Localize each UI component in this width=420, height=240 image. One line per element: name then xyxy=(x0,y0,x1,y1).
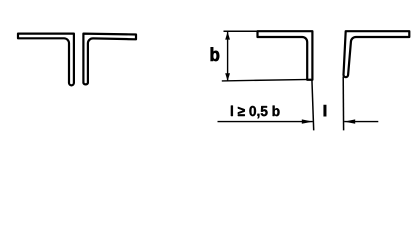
dimension b: bottom extension line xyxy=(222,79,311,81)
right figure: right angle profile xyxy=(344,31,410,77)
dimension b: top arrowhead xyxy=(225,32,230,40)
right figure: left angle profile xyxy=(258,31,313,80)
dimension l: left extension line (below left leg) xyxy=(312,79,314,130)
label "l >= 0,5 b" xyxy=(231,106,280,119)
dimension l: right extension line (below right leg) xyxy=(342,77,344,131)
dimension b: vertical dimension line xyxy=(227,32,229,81)
label b xyxy=(211,47,219,61)
left figure: right angle profile xyxy=(83,34,136,85)
left figure: left angle profile xyxy=(18,34,74,86)
label l (gap width) xyxy=(324,105,326,116)
dimension line for "l >= 0,5 b" with right-pointing arrow xyxy=(218,121,313,123)
dimension line right of l gap with left-pointing arrow xyxy=(344,121,378,123)
dimension b: bottom arrowhead xyxy=(225,73,230,81)
right figure: top extension line for dimension b xyxy=(224,30,259,32)
